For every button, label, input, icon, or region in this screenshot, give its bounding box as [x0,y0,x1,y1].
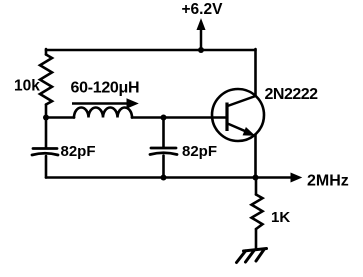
transistor Q1 emitter lead [228,124,251,134]
resistor R1 10k [40,55,52,105]
transistor Q1 2N2222 [212,89,264,141]
wire middle cap lower [162,156,165,178]
transistor Q1 collector lead [228,96,256,106]
ground top bar [244,249,267,252]
capacitor C1 82pF [32,149,58,156]
capacitor C1 top plate [33,147,57,150]
capacitor C2 bottom plate [150,153,177,155]
svg-text:2MHz: 2MHz [307,173,349,190]
transistor Q1 base bar [225,103,228,132]
tuning arrow over inductor [72,99,138,108]
ground [237,249,267,263]
capacitor C2 82pF [150,148,177,155]
tuning arrowhead [127,99,138,108]
wire top rail [46,49,256,52]
transistor Q1 envelope circle [212,89,264,141]
svg-text:1K: 1K [271,209,290,226]
output arrowhead 2MHz [291,173,301,182]
tuning arrow shaft [72,102,129,105]
svg-text:2N2222: 2N2222 [265,86,319,103]
svg-text:+6.2V: +6.2V [182,1,224,18]
svg-text:60-120μH: 60-120μH [71,80,140,97]
wire resistor to ground [255,229,258,249]
wire bottom rail [46,176,256,179]
junction emitter output [253,175,259,181]
supply arrowhead [197,20,205,30]
svg-text:82pF: 82pF [61,143,96,160]
wire left vertical lower [45,156,48,178]
ground slash right [256,250,264,262]
junction top [198,47,204,53]
supply arrow to +6.2V [197,20,205,51]
transistor Q1 emitter arrowhead [243,128,254,135]
wire tank branch right to base [132,116,226,119]
supply arrow stem [200,28,203,50]
wire emitter vertical [254,135,257,178]
ground slash left [237,251,246,263]
capacitor C2 top plate [151,147,176,150]
svg-text:10k: 10k [14,77,40,94]
wire tank branch left [46,116,74,119]
junction bottom middle [161,175,167,181]
svg-text:82pF: 82pF [182,143,217,160]
inductor L1 60-120uH [74,108,132,118]
junction tank right [161,115,167,121]
wire output [256,176,294,179]
junction tank left [43,115,49,121]
wire left vertical upper [45,49,48,55]
wire middle cap upper [162,118,165,148]
resistor R2 1K [252,195,263,230]
wire collector vertical [254,49,257,96]
wire emitter to resistor [255,178,258,195]
ground slash middle [246,251,255,263]
capacitor C1 bottom plate [32,153,58,155]
wire left vertical middle [45,105,48,148]
